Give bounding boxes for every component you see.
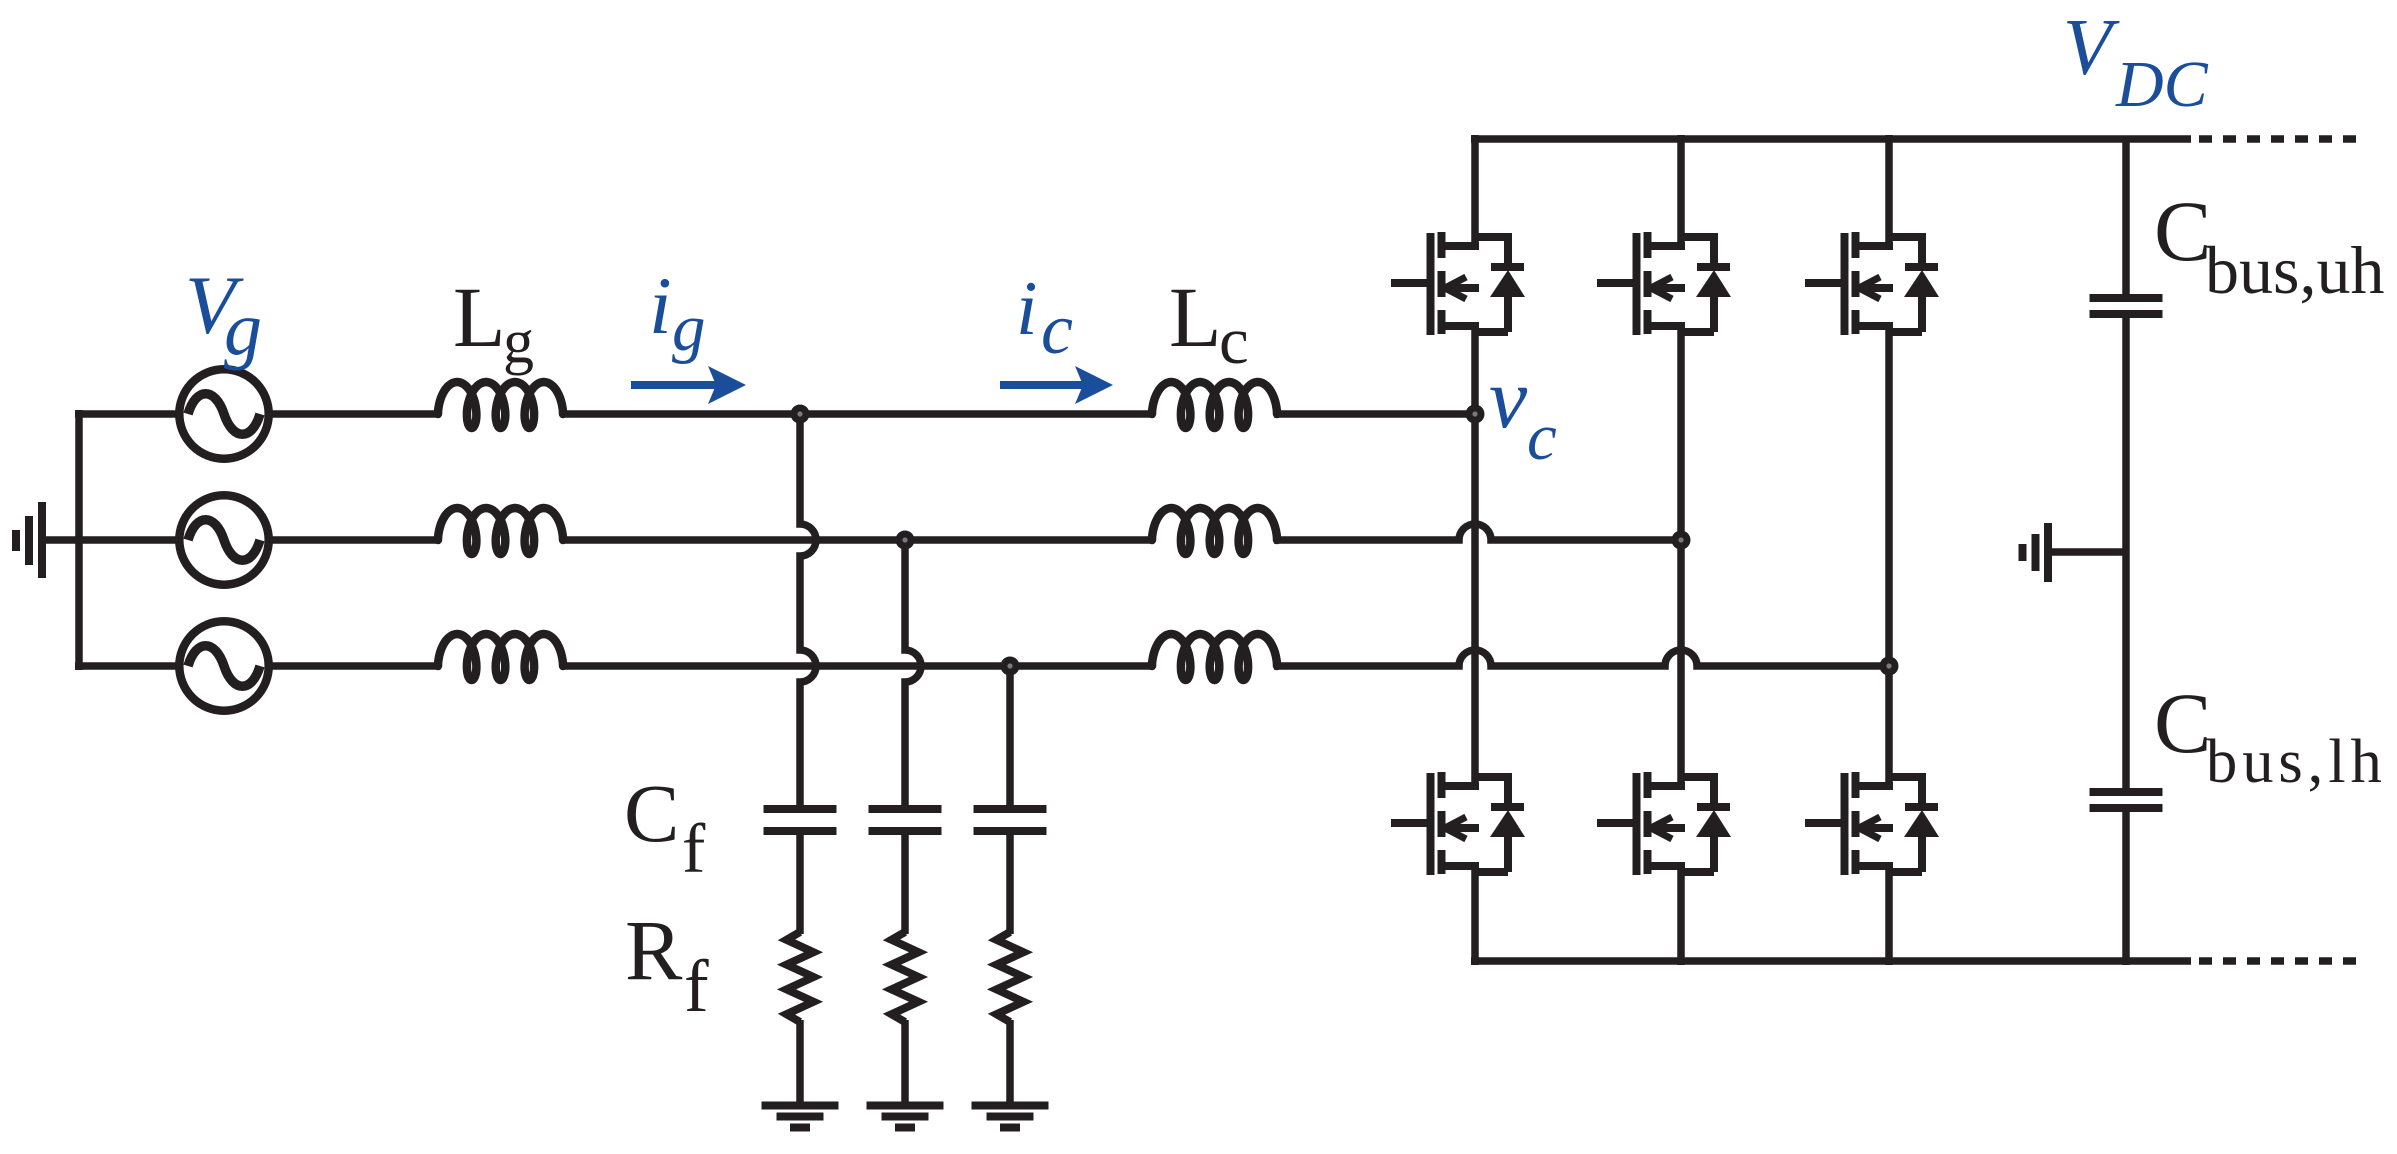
wire: phase c, Lg to Lc xyxy=(562,662,1154,670)
svg-text:C: C xyxy=(2154,183,2211,279)
svg-text:f: f xyxy=(684,946,709,1028)
capacitor Cbus,uh xyxy=(2090,298,2163,314)
svg-text:bus,lh: bus,lh xyxy=(2206,726,2387,796)
wire: leg2 middle xyxy=(1677,322,1685,787)
svg-text:c: c xyxy=(1219,304,1249,378)
svg-text:C: C xyxy=(624,767,679,859)
node: filter tap b xyxy=(896,531,915,550)
label Cbus,lh xyxy=(2154,675,2387,796)
AC source Vg phase a xyxy=(179,369,268,458)
label Rf xyxy=(625,902,709,1028)
capacitor Cf b xyxy=(869,809,942,934)
wire: Rf c to ground xyxy=(1006,1020,1014,1103)
svg-text:i: i xyxy=(649,260,672,351)
ground: DC midpoint xyxy=(2023,523,2129,582)
wire: DC- rail dotted continuation xyxy=(2199,957,2365,965)
wire: Rf a to ground xyxy=(796,1020,804,1103)
wire: Rf b to ground xyxy=(901,1020,909,1103)
ground: filter c xyxy=(972,1106,1049,1128)
wire: source a to Lg xyxy=(272,410,440,418)
current arrow ic xyxy=(1000,381,1085,389)
svg-text:V: V xyxy=(2063,3,2120,92)
svg-text:DC: DC xyxy=(2115,48,2209,121)
label Lg xyxy=(453,269,534,376)
label Cbus,uh xyxy=(2154,183,2384,308)
inductor Lc phase c xyxy=(1152,634,1277,680)
svg-text:c: c xyxy=(1041,289,1073,369)
svg-text:L: L xyxy=(453,269,506,365)
wire: filter branch c xyxy=(1006,666,1014,806)
transistor Q1 (upper leg1) xyxy=(1391,232,1525,335)
svg-text:R: R xyxy=(625,902,683,998)
wire: DC bus vertical middle xyxy=(2122,318,2130,788)
node: leg2 phase b xyxy=(1672,531,1691,550)
capacitor Cbus,lh xyxy=(2090,792,2163,808)
node: filter tap c xyxy=(1001,657,1020,676)
svg-text:bus,uh: bus,uh xyxy=(2205,232,2384,308)
inductor Lg phase a xyxy=(438,382,563,428)
label Lc xyxy=(1169,269,1249,378)
wire: DC bus vertical bottom xyxy=(2122,812,2130,965)
ground: filter a xyxy=(762,1106,839,1128)
svg-text:i: i xyxy=(1016,265,1037,351)
label ig xyxy=(649,260,706,365)
wire: neutral to source b xyxy=(75,536,176,544)
wire: filter branch a (hops over phases b,c) xyxy=(800,414,816,806)
current arrow ig xyxy=(631,381,718,389)
resistor Rf b xyxy=(892,932,919,1022)
transistor Q3 (upper leg2) xyxy=(1597,232,1731,335)
ground: grid neutral xyxy=(16,502,82,578)
wire: neutral to source c xyxy=(75,662,176,670)
transistor Q5 (upper leg3) xyxy=(1805,232,1939,335)
inductor Lg phase b xyxy=(438,508,563,554)
capacitor Cf a xyxy=(764,809,837,934)
wire: leg2 top xyxy=(1677,135,1685,247)
AC source Vg phase c xyxy=(179,621,268,710)
transistor Q4 (lower leg2) xyxy=(1597,772,1731,875)
capacitor Cf c xyxy=(974,809,1047,934)
svg-text:g: g xyxy=(503,308,534,376)
wire: DC+ rail xyxy=(1471,135,2191,143)
wire: DC+ rail dotted continuation xyxy=(2199,135,2365,143)
wire: phase a, Lg to Lc xyxy=(562,410,1154,418)
label VDC xyxy=(2063,3,2209,121)
svg-text:g: g xyxy=(224,287,262,371)
svg-text:v: v xyxy=(1489,350,1528,446)
wire: source c to Lg xyxy=(272,662,440,670)
svg-text:g: g xyxy=(672,291,706,365)
wire: source b to Lg xyxy=(272,536,440,544)
wire: phase a, Lc to leg1 xyxy=(1274,410,1475,418)
wire: phase b, Lc to leg2 (hop over leg1) xyxy=(1274,524,1681,540)
transistor Q6 (lower leg3) xyxy=(1805,772,1939,875)
inductor Lc phase a xyxy=(1152,382,1277,428)
wire: DC bus vertical top xyxy=(2122,139,2130,294)
node: filter tap a xyxy=(791,405,810,424)
node: leg3 phase c xyxy=(1880,657,1899,676)
wire: leg1 bottom xyxy=(1471,862,1479,965)
svg-text:C: C xyxy=(2154,675,2211,771)
wire: neutral bus xyxy=(75,410,83,670)
wire: leg1 top xyxy=(1471,135,1479,247)
label vc xyxy=(1489,350,1557,474)
inductor Lg phase c xyxy=(438,634,563,680)
transistor Q2 (lower leg1) xyxy=(1391,772,1525,875)
svg-text:L: L xyxy=(1169,269,1222,365)
node vc (leg1 phase a) xyxy=(1466,405,1485,424)
wire: phase c, Lc to leg3 (hops over legs 1,2) xyxy=(1274,650,1889,666)
svg-text:c: c xyxy=(1527,400,1557,474)
wire: leg3 middle xyxy=(1885,322,1893,787)
ground: filter b xyxy=(867,1106,944,1128)
wire: phase b, Lg to Lc xyxy=(562,536,1154,544)
label Vg xyxy=(185,259,262,371)
label ic xyxy=(1016,265,1073,369)
wire: filter branch b (hop over phase c) xyxy=(905,540,921,806)
AC source Vg phase b xyxy=(179,495,268,584)
svg-text:f: f xyxy=(682,811,706,888)
wire: leg2 bottom xyxy=(1677,862,1685,965)
wire: leg3 bottom xyxy=(1885,862,1893,965)
wire: leg3 top xyxy=(1885,135,1893,247)
wire: DC- rail xyxy=(1471,957,2191,965)
wire: neutral to source a xyxy=(75,410,176,418)
label Cf xyxy=(624,767,706,888)
wire: leg1 middle xyxy=(1471,322,1479,787)
inductor Lc phase b xyxy=(1152,508,1277,554)
resistor Rf c xyxy=(997,932,1024,1022)
resistor Rf a xyxy=(787,932,814,1022)
